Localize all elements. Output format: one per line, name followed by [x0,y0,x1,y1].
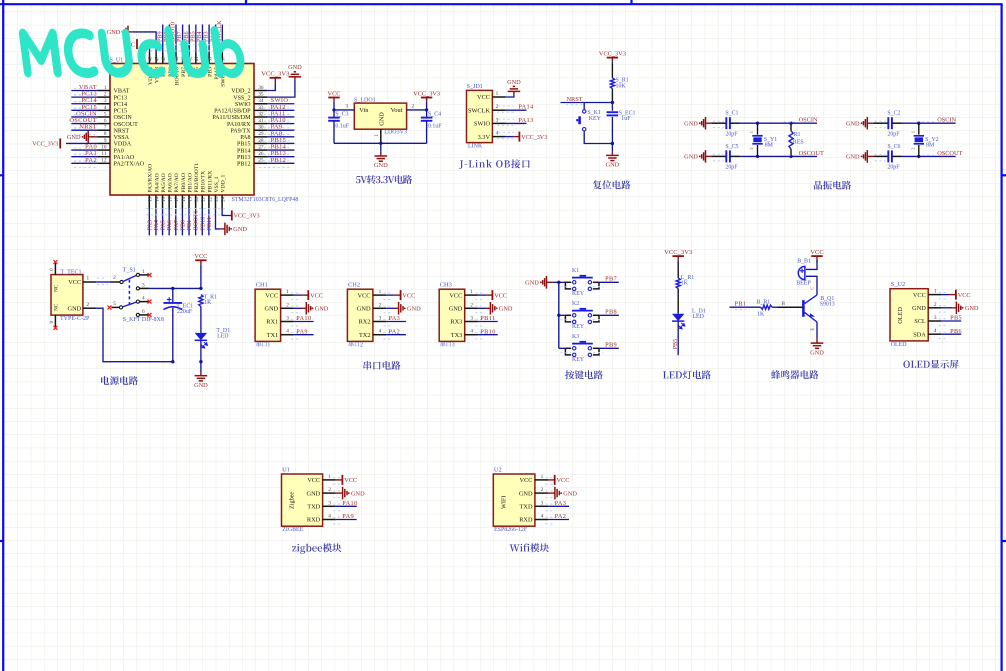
svg-text:1K: 1K [757,311,765,317]
svg-text:2: 2 [328,487,331,493]
wire pin3 net PB5 [941,320,961,322]
capacitor S_C5 20pF [711,155,726,157]
wire vcc to buzzer pin1 [806,260,817,269]
svg-text:K3: K3 [572,334,579,340]
title wifi module [510,543,550,552]
svg-text:B: B [782,301,786,307]
svg-text:GND: GND [912,305,926,312]
ground power block [200,372,202,376]
svg-text:VCC: VCC [344,477,357,484]
svg-text:TXD: TXD [307,504,320,511]
tec1 NC pin top [54,262,56,274]
mcu pin 27 PB14 [254,149,267,151]
svg-text:GND: GND [233,226,247,233]
power VCC of U1 [341,475,343,485]
wire net PA8 [267,136,294,138]
ground crystal row1 [699,122,701,124]
svg-text:GND: GND [684,154,698,161]
switch contact 3 [136,287,139,290]
svg-text:PC14: PC14 [114,102,128,108]
svg-text:GND: GND [379,112,386,126]
svg-text:PB2/BOOT1: PB2/BOOT1 [194,163,200,193]
svg-text:PA2: PA2 [555,513,567,520]
svg-text:2: 2 [86,302,89,308]
wire net PB8 [168,25,170,53]
mcu pin 39 PB3 [208,53,210,64]
border zone tick right 1 [1002,174,1006,176]
svg-text:GND: GND [965,305,979,312]
power VCC at mcu pin 48 [136,39,138,49]
sheet border [2,0,4,671]
svg-text:SWIO: SWIO [474,121,491,128]
svg-text:B_B1: B_B1 [797,259,811,265]
svg-text:NC: NC [54,303,60,311]
svg-text:VCC: VCC [810,249,824,256]
capacitor T_EC1 220uF electrolytic [172,288,174,302]
switch contact 1 [136,273,139,276]
svg-text:GND: GND [374,162,388,169]
button K2 KEY [559,314,566,316]
svg-text:PA11/USB/DM: PA11/USB/DM [212,115,251,121]
svg-text:PA1/AO: PA1/AO [114,155,135,161]
svg-text:S_C1: S_C1 [725,111,738,117]
jlink connector S_JD1 body [467,90,493,142]
svg-text:VCC_3V3: VCC_3V3 [664,249,693,256]
svg-text:4: 4 [286,329,289,335]
dashes bottom pins [146,208,228,210]
svg-text:11: 11 [101,151,106,157]
svg-text:T_S1: T_S1 [123,267,136,273]
svg-text:OSCOUT: OSCOUT [799,150,824,157]
pin 3 TXD [535,505,548,507]
svg-text:8M: 8M [926,143,935,149]
svg-text:VBAT: VBAT [114,89,130,95]
svg-text:33: 33 [258,105,264,111]
pin 1 VCC [535,479,548,481]
svg-text:RX2: RX2 [359,319,371,326]
wire led to net PB5 [677,321,679,355]
title OLED circuit [903,360,958,369]
svg-text:4: 4 [328,514,331,520]
svg-text:S_C4: S_C4 [428,112,441,118]
svg-text:C: C [810,287,815,290]
wire pin4 net PA9 [336,519,357,521]
svg-text:1: 1 [934,289,937,295]
wire net OSCIN [71,116,97,118]
svg-text:OSCIN: OSCIN [114,115,133,121]
svg-text:PB9: PB9 [605,342,617,349]
wire net PB14 [267,149,294,151]
svg-text:SDA: SDA [913,331,926,338]
svg-text:24: 24 [222,196,227,201]
resistor T_R1 1K [199,295,203,307]
svg-text:K1: K1 [572,268,579,274]
wire pin48 VDD_3 to VCC [141,44,150,52]
led L_D1 [672,314,684,321]
svg-text:PB5: PB5 [672,339,679,350]
svg-text:23: 23 [215,196,220,201]
svg-text:35: 35 [258,92,264,98]
dashes top pins [150,44,226,46]
svg-text:LED: LED [217,334,229,340]
svg-text:4: 4 [541,514,544,520]
svg-text:0.1uF: 0.1uF [428,124,442,130]
svg-text:GND: GND [67,134,81,141]
svg-text:PB14: PB14 [237,148,251,154]
wire net PB13 [267,156,294,158]
capacitor S_C4 [426,110,428,118]
svg-text:SWCLK: SWCLK [468,107,490,114]
svg-text:2: 2 [934,302,937,308]
wire Vout pin 2 to VCC_3V3 [407,109,427,111]
pin 1 VCC [465,294,478,296]
svg-text:PA3: PA3 [555,500,567,507]
svg-text:12: 12 [101,158,107,164]
svg-text:37: 37 [222,56,227,61]
svg-text:6: 6 [142,309,145,315]
wire net PB9 [162,25,164,53]
connector U2 body [493,474,535,526]
svg-text:PB1: PB1 [735,301,747,308]
svg-text:19: 19 [188,196,193,201]
svg-text:PB8: PB8 [605,309,617,316]
border zone tick top 1 [245,0,247,4]
svg-text:GND: GND [507,79,521,86]
wire rail to gnd [200,362,202,372]
svg-text:OLED: OLED [897,307,904,324]
svg-text:4: 4 [496,131,499,137]
svg-text:PB11/RX: PB11/RX [207,171,213,193]
svg-text:CH3: CH3 [440,282,452,289]
svg-text:3: 3 [345,104,348,110]
svg-text:1uF: 1uF [621,116,631,122]
mcu pin 44 BOOT0 [175,53,177,64]
svg-text:TYPE-C-2P: TYPE-C-2P [60,316,90,322]
svg-text:1: 1 [286,289,289,295]
wire net PA1 [71,156,97,158]
svg-text:PA10: PA10 [342,500,357,507]
ldo U: S_LDO1 body [354,103,406,129]
wire net PA4 [155,209,157,236]
svg-text:PA8: PA8 [240,135,250,141]
svg-text:S9013: S9013 [820,302,835,308]
svg-text:PB6: PB6 [950,328,962,335]
wire pin9 VDDA to VCC_3V3 [66,142,97,144]
mcu pin 42 PB6 [188,53,190,64]
svg-text:PA2: PA2 [389,328,401,335]
wire net PB1 [188,209,190,236]
svg-text:VCC: VCC [494,292,507,299]
mcu pin 20 PB2/BOOT1 [195,195,197,209]
svg-text:PB7: PB7 [605,276,617,283]
wire pin4 net PA2 [548,519,569,521]
mcu pin 43 PB7 [182,53,184,64]
svg-text:PB15: PB15 [237,142,251,148]
svg-text:PA12/USB/DP: PA12/USB/DP [214,109,251,115]
svg-text:28: 28 [258,138,264,144]
svg-text:1K: 1K [204,300,212,306]
mcu pin 32 PA11/USB/DM [254,116,267,118]
svg-text:46: 46 [162,56,167,61]
svg-text:BEEP: BEEP [796,281,811,287]
mcu pin 23 VSS_1 [215,195,217,209]
svg-text:1: 1 [142,269,145,275]
svg-text:S_LDO1: S_LDO1 [354,97,376,103]
wire net PB15 [267,142,294,144]
svg-text:PA13: PA13 [518,117,533,124]
ground of LDO block [380,152,382,156]
mcu pin 40 PB4 [201,53,203,64]
ground of U1 [338,492,342,494]
crystal S_Y1 8M [757,123,759,134]
svg-text:GND: GND [563,490,577,497]
svg-text:TX1: TX1 [267,332,279,339]
title 5V to 3.3V [356,175,412,184]
svg-text:15: 15 [162,196,167,201]
svg-text:5: 5 [113,301,116,307]
svg-text:U1: U1 [282,466,290,473]
svg-text:K2: K2 [572,301,579,307]
svg-text:1: 1 [470,289,473,295]
capacitor S_EC1 1uF [611,103,613,111]
svg-text:PB10/TX: PB10/TX [201,171,207,193]
svg-text:VCC: VCC [310,292,323,299]
wire pin35 VSS_2 to gnd [267,80,295,97]
wire row1 OSCIN [740,122,818,124]
mcu pin 34 SWIO [254,103,267,105]
wire net OSCOUT [71,123,97,125]
svg-text:B_R1: B_R1 [757,300,771,306]
svg-text:GND: GND [194,382,208,389]
svg-text:PA3: PA3 [389,315,401,322]
ground crystal row2 [861,156,863,158]
svg-text:PB12: PB12 [237,162,251,168]
mcu pin 13 PA3/RX/AO [148,195,150,209]
svg-text:S_C6: S_C6 [887,144,900,150]
wire net PA2 [71,162,97,164]
svg-text:S_C3: S_C3 [335,112,348,118]
wire pin1 to VCC [548,479,555,481]
wire net PC15 [71,109,97,111]
power VCC_3V3 at mcu pin 9 [59,138,61,148]
svg-text:3: 3 [934,315,937,321]
svg-text:PA4/AO: PA4/AO [154,173,160,192]
usb connector T_TEC1 body [51,275,83,316]
svg-text:1: 1 [496,91,499,97]
switch gang dashed link [128,280,130,305]
capacitor S_C6 20pF [873,155,888,157]
svg-text:PC15: PC15 [114,109,128,115]
mcu pin 15 PA5/AO [162,195,164,209]
wire resistor to led [200,307,202,333]
sub label 串口2 [349,342,363,347]
wire pin3 net PA3 [386,321,406,323]
mcu pin 35 VSS_2 [254,96,267,98]
switch arms [123,275,136,281]
title J-Link OB [459,159,530,169]
svg-text:4: 4 [470,329,473,335]
title reset circuit [593,180,631,189]
wire row2 OSCOUT [902,155,956,157]
wire button bottom [584,131,612,144]
svg-text:TX3: TX3 [451,332,463,339]
connector CH3 body [439,289,465,341]
button K3 KEY [559,347,566,349]
ground buzzer [816,339,818,343]
svg-text:1: 1 [910,131,915,133]
svg-text:29: 29 [258,131,264,137]
resistor R1 RES [790,123,792,131]
wire jlink pin4 to VCC_3V3 [506,136,514,138]
wire net PC14 [71,103,97,105]
mcu pin 47 VSS_3 [155,53,157,64]
svg-text:3.3V: 3.3V [478,134,491,141]
pin 4 RXD [323,519,336,521]
wire switch out to vcc node [149,287,201,289]
svg-text:PA2/TX/AO: PA2/TX/AO [114,162,145,168]
border zone tick right 2 [1002,540,1006,542]
svg-text:VSS_1: VSS_1 [214,176,220,192]
svg-text:GND: GND [810,349,824,356]
mcu pin 46 PB9 [162,53,164,64]
svg-text:25: 25 [258,158,264,164]
svg-text:27: 27 [258,144,264,150]
wire pin1 to VCC [478,294,486,296]
title zigbee module [292,543,341,554]
capacitor S_C2 20pF [873,122,888,124]
mcu pin 31 PA10/RX [254,123,267,125]
svg-text:VCC_3V3: VCC_3V3 [413,90,440,97]
svg-text:2: 2 [749,147,754,149]
svg-text:2: 2 [411,104,414,110]
mcu pin 6 OSCOUT [97,123,110,125]
svg-text:RXD: RXD [519,517,533,524]
svg-text:PA9: PA9 [296,328,308,335]
crystal S_Y2 8M [918,123,920,134]
capacitor S_C3 [333,110,335,118]
power VCC_3V3 at mcu pin 24 [231,211,233,221]
svg-text:GND: GND [288,64,302,71]
wire base [778,306,804,308]
svg-text:VCC: VCC [449,292,462,299]
svg-text:VCC: VCC [520,477,533,484]
wire gnd to bus [552,281,566,283]
wire net PB11 [208,209,210,236]
svg-text:1: 1 [749,131,754,133]
wire pin47 VSS_3 to gnd [133,32,156,53]
wire jlink pin3 net PA13 [506,122,527,124]
svg-text:7: 7 [104,125,107,131]
pin 2 GND [535,492,548,494]
logo MCUclub [20,27,244,77]
mcu pin 25 PB12 [254,162,267,164]
svg-text:R1: R1 [794,132,801,138]
wire to gnd reset [611,144,613,152]
svg-text:S_KFT DIP-8X8: S_KFT DIP-8X8 [123,317,164,323]
tec1 NC pin bottom [54,315,56,327]
svg-text:GND: GND [265,306,279,313]
svg-text:2: 2 [541,487,544,493]
svg-text:T_TEC1: T_TEC1 [61,270,82,276]
resistor S_R1 10K [611,64,613,78]
ground of CH3 [486,307,490,309]
svg-text:VCC: VCC [328,90,341,97]
svg-text:10K: 10K [616,83,627,89]
svg-text:TXD: TXD [520,504,533,511]
sub label 串口1 [257,342,270,347]
svg-text:PA9/TX: PA9/TX [230,128,251,134]
wire net PB10 [201,209,203,236]
svg-text:VCC: VCC [68,279,81,286]
svg-text:VCC: VCC [194,253,207,260]
mcu pin 41 PB5 [195,53,197,64]
jlink pin 3 SWIO [492,122,505,124]
svg-text:47: 47 [155,56,160,61]
mcu pin 45 PB8 [168,53,170,64]
svg-text:20pF: 20pF [887,131,900,137]
svg-text:GND: GND [107,29,121,36]
pin 4 RXD [535,519,548,521]
wire pin2 to GND [548,492,551,494]
svg-text:VDD_2: VDD_2 [231,89,250,95]
svg-text:KEY: KEY [572,324,585,330]
svg-text:NRST: NRST [114,128,130,134]
svg-text:Vout: Vout [391,107,403,114]
svg-text:PB0/AO: PB0/AO [181,173,187,193]
power VCC_3V3 at jlink pin 4 [518,132,520,142]
svg-text:LINK: LINK [468,144,483,150]
ground buttons block [540,281,542,283]
svg-text:VCC_3V3: VCC_3V3 [261,71,290,78]
wire net PA5 [162,209,164,236]
svg-text:VCC: VCC [557,477,570,484]
svg-text:3: 3 [104,98,107,104]
svg-text:20pF: 20pF [725,165,738,171]
wire buzzer pin2 to collector [806,276,817,295]
svg-text:2: 2 [910,147,915,149]
pin 3 RX3 [465,321,478,323]
mcu pin 22 PB11/RX [208,195,210,209]
wire net PA12 [267,109,294,111]
wire pin3 net PA10 [294,321,314,323]
power VCC of U2 [554,475,556,485]
svg-text:OSCOUT: OSCOUT [937,150,962,157]
title buttons circuit [565,370,603,379]
svg-text:1: 1 [86,276,89,282]
svg-text:39: 39 [208,56,213,61]
pin 4 TX2 [373,334,386,336]
svg-text:4: 4 [142,296,145,302]
svg-text:1: 1 [328,474,331,480]
svg-text:34: 34 [258,98,264,104]
jlink pin 1 VCC [492,96,505,98]
jlink pin 4 3.3V [492,136,505,138]
wire net PA7 [175,209,177,236]
svg-text:PB1/AO: PB1/AO [187,173,193,193]
wire net VBAT [71,90,97,92]
ground reset block [611,151,613,155]
svg-text:CH2: CH2 [348,282,360,289]
pin 3 RX1 [281,321,294,323]
svg-text:8M: 8M [765,143,774,149]
ground crystal row2 [699,156,701,158]
svg-text:36: 36 [258,85,264,91]
svg-text:PA3/RX/AO: PA3/RX/AO [148,164,154,193]
wire row1 OSCIN [902,122,956,124]
connector CH2 body [347,289,373,341]
wire pin1 to VCC [294,294,302,296]
svg-text:16: 16 [169,196,174,201]
